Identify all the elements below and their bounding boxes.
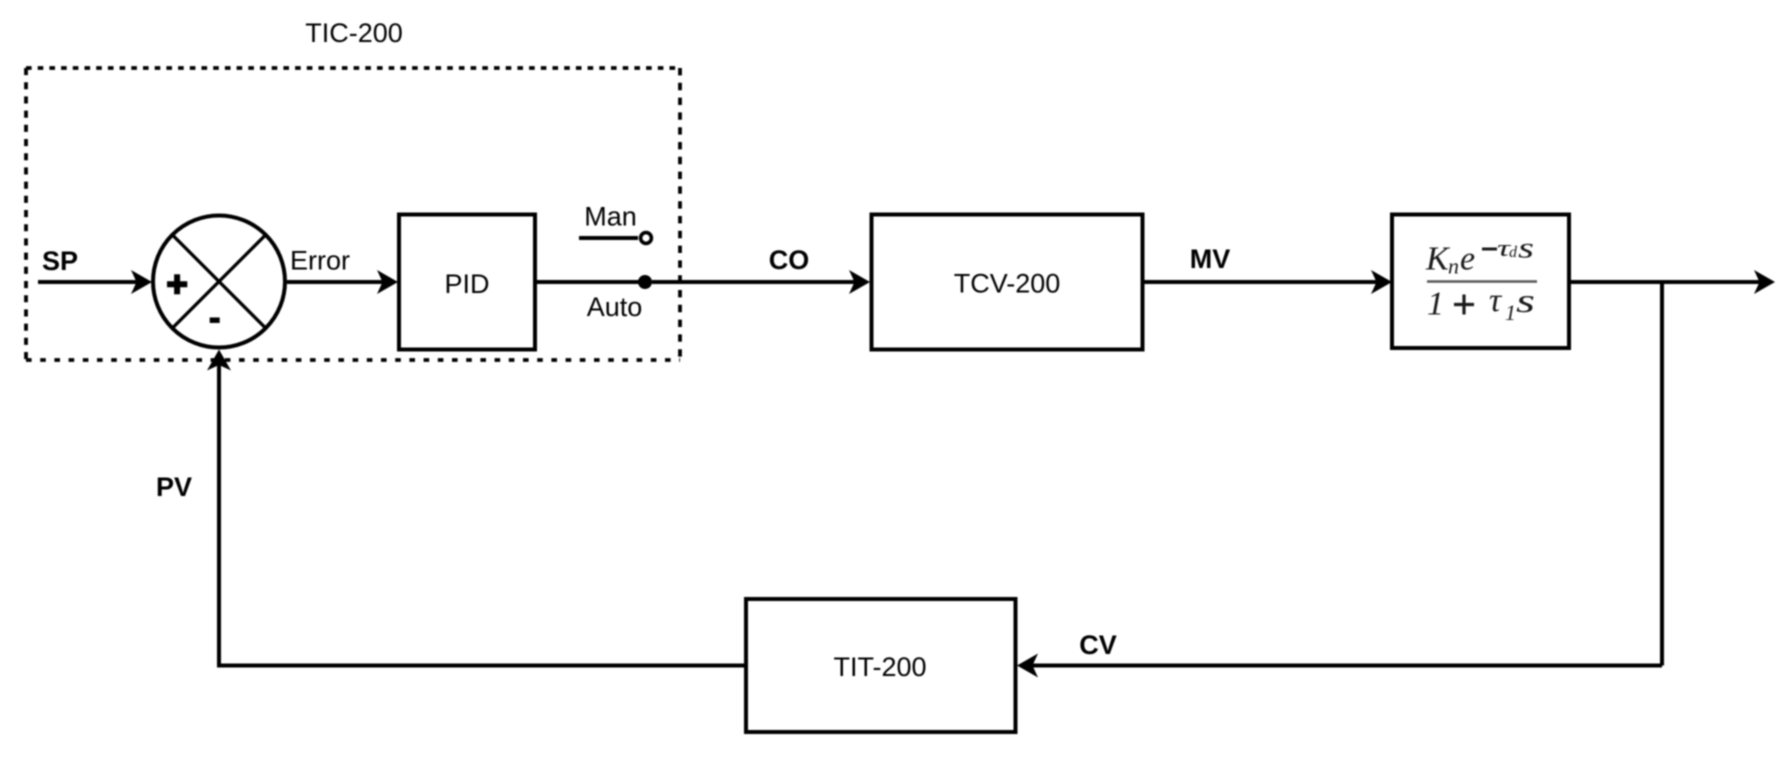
svg-text:Man: Man (584, 202, 637, 232)
label TIC-200 (305, 18, 403, 48)
node Auto junction dot (638, 275, 652, 289)
label Error (290, 246, 350, 276)
svg-text:SP: SP (42, 246, 78, 276)
svg-text:CO: CO (769, 245, 810, 275)
svg-text:CV: CV (1079, 630, 1117, 660)
svg-text:PID: PID (444, 269, 489, 299)
svg-text:TCV-200: TCV-200 (954, 269, 1061, 299)
formula denominator 1 + tau_1 s (1427, 282, 1535, 325)
svg-text:Auto: Auto (587, 292, 643, 322)
label SP (42, 246, 78, 276)
wire PID output to Auto node (535, 280, 645, 284)
minus sign (210, 317, 220, 323)
formula numerator Kn e^-tau_d s (1425, 232, 1534, 279)
wire process output (1569, 270, 1775, 294)
controller TIC-200 dashed boundary (26, 68, 680, 360)
block TIT-200 (746, 599, 1016, 732)
summing junction (153, 216, 285, 348)
svg-text:1: 1 (1427, 286, 1444, 323)
svg-text:TIT-200: TIT-200 (833, 652, 926, 682)
svg-text:e: e (1460, 241, 1475, 278)
block TCV-200 (872, 215, 1143, 350)
svg-text:MV: MV (1190, 244, 1231, 274)
node feedback branch (1660, 282, 1664, 666)
svg-text:s: s (1518, 232, 1534, 265)
svg-text:1: 1 (1505, 300, 1516, 325)
label PV (156, 472, 192, 502)
label CV (1079, 630, 1117, 660)
svg-text:Error: Error (290, 246, 350, 276)
wire MV (1143, 270, 1393, 294)
svg-text:TIC-200: TIC-200 (305, 18, 403, 48)
svg-text:n: n (1448, 254, 1459, 279)
svg-text:PV: PV (156, 472, 192, 502)
svg-text:d: d (1509, 244, 1518, 261)
label MV (1190, 244, 1231, 274)
label Man (584, 202, 637, 232)
wire CO (652, 270, 870, 294)
svg-text:s: s (1516, 283, 1535, 320)
label CO (769, 245, 810, 275)
wire SP input (38, 270, 152, 294)
wire Error (287, 270, 398, 294)
wire CV (1017, 654, 1662, 678)
block PID (399, 215, 535, 350)
wire PV (207, 350, 746, 666)
formula fraction bar (1427, 280, 1537, 283)
plus sign (167, 274, 187, 294)
svg-text:τ: τ (1489, 282, 1503, 319)
label Auto (587, 292, 643, 322)
switch Man contact (579, 233, 651, 244)
block process transfer function (1392, 215, 1569, 349)
